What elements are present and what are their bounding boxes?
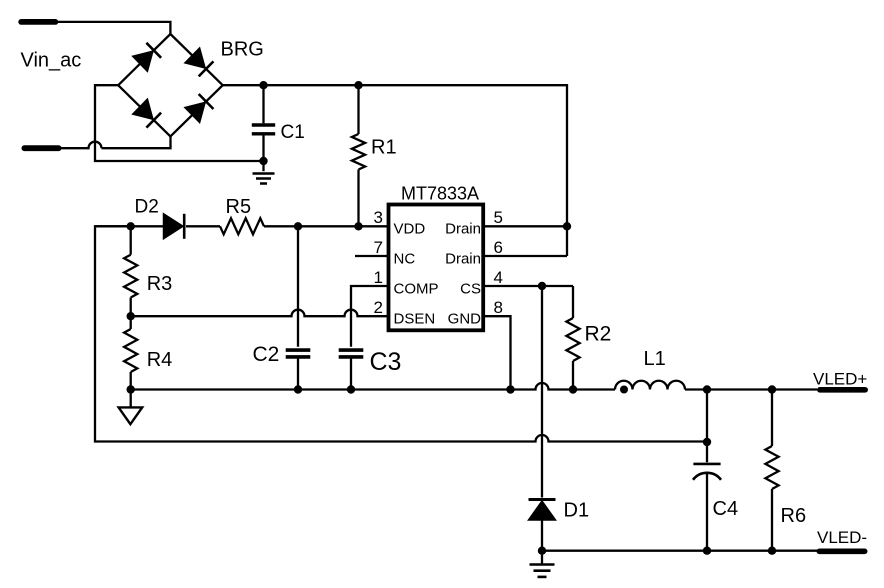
svg-text:1: 1 bbox=[374, 268, 383, 287]
svg-text:NC: NC bbox=[394, 250, 416, 267]
svg-text:D1: D1 bbox=[564, 500, 590, 522]
svg-text:Drain: Drain bbox=[445, 250, 481, 267]
svg-text:2: 2 bbox=[374, 298, 383, 317]
svg-text:C3: C3 bbox=[370, 348, 402, 376]
svg-text:C1: C1 bbox=[281, 122, 305, 143]
svg-text:GND: GND bbox=[448, 311, 482, 328]
svg-text:COMP: COMP bbox=[394, 280, 439, 297]
svg-text:R6: R6 bbox=[781, 505, 807, 527]
svg-text:R4: R4 bbox=[147, 349, 173, 371]
svg-text:BRG: BRG bbox=[221, 39, 264, 61]
svg-text:C2: C2 bbox=[253, 343, 280, 366]
svg-text:D2: D2 bbox=[135, 196, 159, 217]
svg-text:CS: CS bbox=[460, 280, 481, 297]
svg-text:4: 4 bbox=[494, 268, 503, 287]
svg-text:Vin_ac: Vin_ac bbox=[21, 49, 82, 71]
svg-text:VDD: VDD bbox=[394, 221, 426, 238]
svg-text:L1: L1 bbox=[644, 348, 666, 370]
svg-text:VLED+: VLED+ bbox=[813, 370, 867, 389]
svg-text:R5: R5 bbox=[226, 196, 252, 218]
svg-text:6: 6 bbox=[494, 238, 503, 257]
svg-text:3: 3 bbox=[374, 208, 383, 227]
svg-text:5: 5 bbox=[494, 208, 503, 227]
svg-text:R3: R3 bbox=[147, 273, 173, 295]
svg-text:VLED-: VLED- bbox=[817, 528, 867, 547]
svg-text:Drain: Drain bbox=[445, 221, 481, 238]
svg-text:C4: C4 bbox=[713, 498, 739, 520]
svg-text:R2: R2 bbox=[585, 323, 612, 346]
svg-text:DSEN: DSEN bbox=[394, 311, 436, 328]
svg-text:MT7833A: MT7833A bbox=[401, 183, 479, 203]
svg-text:8: 8 bbox=[494, 298, 503, 317]
svg-text:R1: R1 bbox=[371, 137, 397, 159]
svg-text:7: 7 bbox=[374, 238, 383, 257]
